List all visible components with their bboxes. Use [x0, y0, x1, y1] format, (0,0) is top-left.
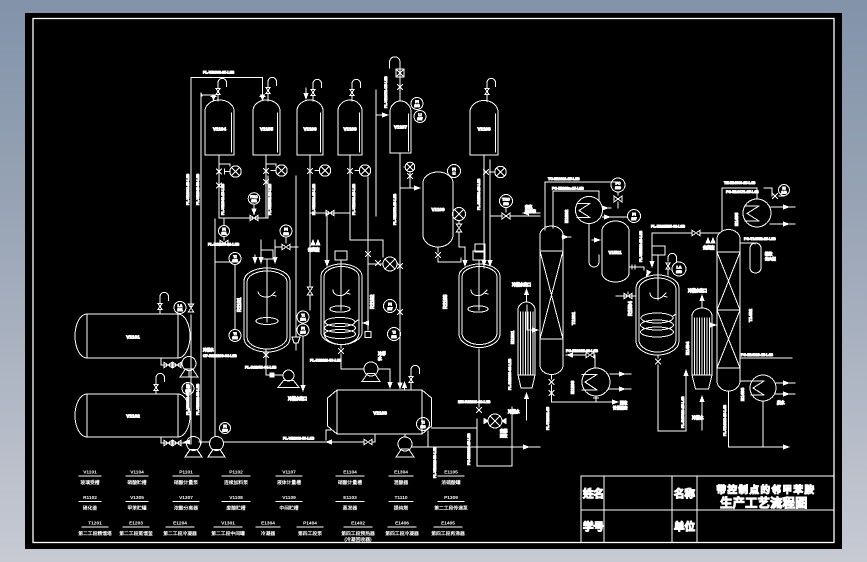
svg-text:PG-T14052-25-L1B: PG-T14052-25-L1B — [744, 237, 776, 241]
E1404 top vent — [688, 288, 707, 308]
svg-text:V1104: V1104 — [130, 470, 144, 476]
svg-text:PL-E123N25-08-L2B: PL-E123N25-08-L2B — [651, 225, 685, 229]
feed arrow into V1511 — [592, 237, 601, 242]
vent gooseneck V1105 — [268, 77, 277, 87]
svg-text:P1101: P1101 — [179, 470, 193, 476]
svg-text:PL-V11003-25-L1B: PL-V11003-25-L1B — [203, 71, 235, 75]
svg-text:第四工段预热器: 第四工段预热器 — [341, 530, 375, 537]
svg-text:第二工段中间罐: 第二工段中间罐 — [211, 530, 245, 537]
svg-text:LA: LA — [676, 266, 681, 270]
svg-text:PL-V11041-25-L1B: PL-V11041-25-L1B — [221, 183, 225, 215]
svg-text:第四工段冷凝器: 第四工段冷凝器 — [385, 530, 419, 537]
svg-text:104: 104 — [300, 318, 306, 322]
vent valve V1101 — [158, 303, 162, 309]
legend row2 — [83, 495, 468, 512]
svg-text:PL-V11023-50-L1B: PL-V11023-50-L1B — [433, 446, 437, 478]
E1403 outlets right — [776, 380, 795, 385]
valve on V1108 riser — [347, 168, 352, 173]
reactor R1103 — [443, 264, 500, 348]
loop piping — [477, 407, 512, 466]
valve on R1103 outlet — [476, 407, 481, 412]
svg-text:120: 120 — [615, 186, 621, 190]
control lines TC PC — [545, 177, 616, 201]
instrument TI 118 — [388, 328, 401, 341]
svg-text:PL-V11022-50-L1B: PL-V11022-50-L1B — [196, 383, 200, 415]
svg-text:冷凝水: 冷凝水 — [692, 415, 704, 420]
instrument LA on V1101 — [174, 302, 186, 314]
vacuum exit left — [522, 204, 540, 216]
svg-text:空系统: 空系统 — [525, 209, 536, 214]
svg-text:TE-E14000-25-L4B: TE-E14000-25-L4B — [724, 181, 756, 185]
vessel V1109 — [423, 172, 453, 247]
feed pipes into T1201 dome — [545, 182, 553, 230]
svg-text:105: 105 — [300, 331, 306, 335]
svg-text:PL-R11502-25-L1B: PL-R11502-25-L1B — [477, 178, 481, 210]
valve and FI at top right — [764, 188, 784, 199]
small arrows at pump — [484, 419, 506, 424]
pump P1105 under V1103 — [495, 166, 506, 177]
svg-text:V1104: V1104 — [213, 127, 226, 132]
svg-text:PG-E14A71-25-L4B: PG-E14A71-25-L4B — [726, 190, 759, 194]
feed arrow into V1105 from header — [260, 77, 265, 101]
flange at P1104 — [355, 170, 359, 172]
svg-text:150: 150 — [676, 270, 682, 274]
outlet piping V1105 — [266, 155, 276, 218]
svg-text:PL-V11072-25-L1B: PL-V11072-25-L1B — [393, 193, 397, 225]
svg-text:E1202: E1202 — [564, 209, 569, 223]
svg-text:103: 103 — [232, 336, 238, 340]
svg-text:PL-V11003-50-L1B: PL-V11003-50-L1B — [283, 437, 315, 441]
reactor R1504 — [628, 275, 679, 355]
svg-text:V1109: V1109 — [282, 495, 296, 501]
svg-text:PL-V11061-25-L1B: PL-V11061-25-L1B — [312, 183, 316, 215]
arrow out left of pump — [183, 439, 210, 444]
valve under V1103 — [483, 169, 488, 174]
bottom feed line into V1103h — [224, 437, 364, 445]
recycle loop under pumps — [215, 176, 268, 436]
svg-text:MN-R11323-62-L2B: MN-R11323-62-L2B — [458, 400, 491, 404]
svg-text:PL-R11106-22-L1B: PL-R11106-22-L1B — [208, 243, 240, 247]
valve on V1106 riser — [307, 168, 312, 173]
feed arrow into V1106 — [303, 88, 308, 100]
svg-text:回收: 回收 — [620, 400, 628, 405]
svg-text:111: 111 — [222, 232, 227, 236]
svg-text:回收: 回收 — [500, 433, 508, 438]
outlet piping V1107 — [397, 153, 402, 390]
instrument FI above pump — [220, 423, 231, 434]
flange at P1102 — [271, 170, 275, 172]
svg-text:名称: 名称 — [674, 487, 695, 500]
feed arrows into R1103 — [462, 250, 467, 267]
pipe from V1103h to loop — [432, 427, 478, 429]
T1201 overhead line — [562, 234, 571, 239]
vent arrow on V1103h — [402, 381, 407, 390]
control valve on line y=216 — [502, 208, 510, 220]
instrument LI at V1107 — [414, 111, 426, 123]
svg-text:提纯塔: 提纯塔 — [394, 505, 409, 512]
svg-text:V1108: V1108 — [229, 495, 243, 501]
svg-text:R1102: R1102 — [83, 495, 97, 501]
svg-text:PL-R11059-64-L1B: PL-R11059-64-L1B — [245, 366, 277, 370]
exchanger E1201 — [510, 302, 535, 388]
reactor R1101 — [237, 268, 290, 352]
arrow into R1102 side — [362, 320, 369, 325]
svg-text:冷凝水出口: 冷凝水出口 — [688, 288, 707, 293]
valve under PI 120 — [276, 244, 298, 250]
svg-text:PL-V11051-25-L1B: PL-V11051-25-L1B — [268, 183, 272, 215]
svg-text:PL-R11030-38-L2B: PL-R11030-38-L2B — [508, 358, 512, 390]
svg-text:单位: 单位 — [674, 520, 695, 533]
svg-text:冷凝器: 冷凝器 — [261, 530, 276, 537]
valve on V1105 riser lower — [263, 179, 268, 184]
instrument PI on V1102 — [182, 383, 194, 395]
instrument TI left of R1101 — [229, 253, 241, 265]
svg-text:R1504: R1504 — [628, 301, 634, 316]
svg-text:生产工艺流程图: 生产工艺流程图 — [720, 495, 808, 510]
exchanger E1203 — [570, 368, 610, 396]
svg-text:T1110: T1110 — [394, 495, 407, 501]
right side pipework of R1102 — [367, 177, 369, 330]
svg-text:PL-R11010-50-L1B: PL-R11010-50-L1B — [310, 359, 342, 363]
feed arrow into R1102 — [324, 213, 329, 267]
svg-text:LI: LI — [453, 172, 456, 176]
vent gooseneck V1102 — [156, 373, 165, 383]
instrument FI near R1101 top — [219, 218, 230, 237]
svg-text:冷凝水出口: 冷凝水出口 — [512, 282, 531, 287]
svg-text:118: 118 — [391, 335, 396, 339]
svg-text:中间贮槽: 中间贮槽 — [279, 505, 298, 512]
pump P1105c right of R1102 — [383, 257, 397, 271]
feed line into R1504 top — [649, 233, 654, 268]
pipe to pump P1105 — [489, 171, 494, 173]
instrument PI 117 — [384, 300, 397, 313]
vent stub V1103h — [410, 375, 412, 390]
valve on vacuum header — [692, 230, 700, 236]
motor R1504 — [652, 246, 665, 300]
svg-text:E1103: E1103 — [343, 495, 357, 501]
instrument TI 110 — [417, 418, 430, 431]
svg-text:E1104: E1104 — [343, 470, 357, 476]
vessel V1511 — [602, 221, 629, 282]
instrument FI — [779, 185, 790, 196]
pump P1107 — [396, 434, 414, 457]
svg-text:(冷凝回收器): (冷凝回收器) — [344, 536, 372, 543]
svg-text:硝化釜: 硝化釜 — [83, 505, 98, 512]
control valve below pump — [456, 221, 465, 256]
svg-text:第二工段精馏塔: 第二工段精馏塔 — [78, 530, 112, 537]
drain from V1103h right end — [427, 431, 429, 447]
E1403 bottom drain — [762, 401, 764, 447]
svg-text:R1102: R1102 — [370, 294, 376, 309]
riser pipe 1 — [190, 77, 192, 444]
E1404 bottom inlet — [692, 395, 705, 430]
controller PRC 102 — [248, 193, 260, 216]
line E1202 to V1511 — [602, 205, 611, 210]
R1102 bottom outlet valve — [338, 345, 343, 362]
svg-text:冷却: 冷却 — [378, 351, 386, 356]
R1103 bottom outlet — [478, 349, 480, 407]
relief valve box with X — [396, 69, 404, 77]
svg-text:E1403: E1403 — [740, 387, 745, 401]
svg-text:PL-R15023-25-L4B: PL-R15023-25-L4B — [681, 396, 685, 428]
valve on V1107 downpipe lower — [397, 309, 402, 314]
V1103h left drain — [326, 430, 331, 440]
svg-text:PI: PI — [388, 303, 391, 307]
pump under V1107 — [405, 162, 415, 172]
legend row1 — [80, 470, 460, 487]
svg-text:排放: 排放 — [765, 251, 773, 256]
svg-text:E1105: E1105 — [444, 470, 458, 476]
svg-text:去火炬: 去火炬 — [765, 256, 776, 261]
svg-text:R1103: R1103 — [443, 294, 449, 309]
svg-text:CP-R110109-64-L1B: CP-R110109-64-L1B — [203, 354, 237, 358]
pump P1110 under R1101 — [278, 370, 299, 388]
instrument PI at V1107 — [411, 98, 423, 110]
motor R1101 — [261, 250, 273, 322]
svg-text:V1301: V1301 — [221, 521, 235, 527]
drain line from pump P1102 — [295, 176, 297, 337]
svg-text:冷凝水出口: 冷凝水出口 — [288, 396, 307, 401]
vessel V1107 — [390, 101, 411, 153]
svg-text:120: 120 — [503, 202, 509, 206]
T1201 feed arrow left — [527, 305, 539, 333]
outlet piping V1104 — [219, 155, 230, 218]
svg-text:V1108: V1108 — [343, 127, 356, 132]
valve under pump V1107 — [407, 173, 412, 178]
to-vacuum symbol — [308, 240, 320, 252]
legend row3 — [78, 521, 465, 544]
vent gooseneck V1106 — [313, 79, 322, 89]
T1402 overhead to E1405 — [722, 188, 757, 231]
exchanger E1404 — [685, 308, 712, 389]
svg-text:101: 101 — [177, 308, 183, 312]
E1201 bottom inlet — [508, 392, 529, 420]
svg-text:废酸贮槽: 废酸贮槽 — [226, 505, 245, 512]
svg-text:PG-E14023-25-L4B: PG-E14023-25-L4B — [741, 353, 773, 357]
svg-text:第二工段传递泵: 第二工段传递泵 — [434, 505, 468, 512]
vessel V1101 — [75, 314, 190, 358]
E1201 top vent — [512, 282, 531, 302]
V1101 outlet to pump — [161, 358, 181, 365]
valve on riser near V1101 — [188, 304, 194, 312]
pump P1108 — [486, 414, 504, 428]
V1511 outlet right — [629, 265, 651, 278]
svg-text:V1511: V1511 — [608, 250, 621, 255]
instrument TI right of R1101 — [297, 311, 309, 323]
valve on V1105 riser — [263, 168, 268, 173]
svg-text:107: 107 — [417, 117, 423, 121]
exchanger E1202 — [564, 197, 603, 224]
svg-text:R1101: R1101 — [237, 297, 243, 312]
svg-text:PL-T14023-25-L4B: PL-T14023-25-L4B — [723, 404, 727, 436]
svg-text:混酸器: 混酸器 — [394, 479, 409, 486]
svg-text:T1402: T1402 — [748, 309, 753, 322]
valve V1102 outlet 2 — [173, 440, 181, 446]
svg-text:甲苯贮罐: 甲苯贮罐 — [127, 505, 146, 512]
svg-text:去真: 去真 — [525, 204, 533, 209]
R1504 bottom outlet loop to E1404 — [655, 355, 688, 431]
svg-text:E1304: E1304 — [394, 470, 408, 476]
svg-text:去真空: 去真空 — [703, 245, 715, 250]
svg-text:V1106: V1106 — [303, 127, 316, 132]
valve and riser into V1103h — [364, 434, 375, 445]
valve on V1106 downpipe — [307, 287, 313, 295]
svg-text:第二工段蒸馏釜: 第二工段蒸馏釜 — [119, 530, 153, 537]
title block grid — [581, 476, 834, 542]
E1405 outlets right — [771, 204, 795, 209]
valve on V1104 riser — [216, 183, 221, 188]
vessel V1104 — [205, 100, 234, 155]
svg-text:E1204: E1204 — [173, 521, 187, 527]
feed arrow into V1107 left — [376, 90, 389, 216]
svg-text:102: 102 — [185, 389, 191, 393]
svg-text:浓硫酸罐: 浓硫酸罐 — [441, 479, 460, 486]
funnel drain right of R1101 — [292, 337, 300, 350]
svg-text:109: 109 — [222, 429, 228, 433]
svg-text:120: 120 — [283, 232, 289, 236]
exchanger E1405 — [734, 199, 771, 227]
line into E1405 top — [756, 188, 758, 199]
agitator R1102 — [330, 290, 350, 312]
svg-text:V1105: V1105 — [260, 127, 273, 132]
svg-text:TRC: TRC — [502, 198, 510, 202]
pump P1103 — [319, 165, 330, 176]
svg-text:117: 117 — [387, 307, 392, 311]
pump at V1109 right — [453, 208, 466, 221]
vent stub V1102 — [155, 383, 157, 394]
reactor R1102 — [321, 264, 376, 345]
svg-text:V1107: V1107 — [282, 470, 296, 476]
pump P1101 — [230, 166, 241, 177]
vessel V1102 — [75, 394, 190, 437]
pipe to pump P1105c — [368, 263, 383, 265]
feed drop into V1104 — [201, 95, 216, 102]
valve under V1107 — [397, 263, 402, 268]
svg-text:V1103: V1103 — [477, 127, 490, 132]
column T1402 — [717, 230, 753, 391]
jacket condensate drain — [288, 336, 307, 401]
svg-text:FC: FC — [615, 182, 620, 186]
E1202 drain loop — [589, 224, 599, 268]
discharge line right — [412, 444, 540, 449]
vent gooseneck V1103 — [487, 78, 496, 88]
svg-text:E1402: E1402 — [351, 521, 365, 527]
svg-text:V1307: V1307 — [179, 495, 193, 501]
svg-text:P1309: P1309 — [444, 495, 458, 501]
valve on stack — [397, 84, 402, 89]
instrument FC — [611, 178, 625, 192]
vessel V1108 — [338, 100, 362, 155]
svg-text:第二工段冷凝器: 第二工段冷凝器 — [163, 530, 197, 537]
svg-text:V1305: V1305 — [130, 495, 144, 501]
vessel V1105 — [253, 100, 280, 155]
svg-text:TI: TI — [421, 421, 424, 425]
vent gooseneck V1108 — [352, 79, 361, 89]
valve V1101 outlet 2 — [173, 362, 181, 368]
svg-text:PL-V11071-C5-L1B: PL-V11071-C5-L1B — [384, 76, 388, 108]
svg-text:液体计量槽: 液体计量槽 — [277, 479, 301, 486]
svg-text:带控制点的邻甲苯胺: 带控制点的邻甲苯胺 — [716, 484, 815, 496]
relief stack above V1107: gooseneck to flare — [390, 57, 400, 101]
svg-text:连续加料泵: 连续加料泵 — [224, 479, 248, 486]
svg-text:去蒸: 去蒸 — [500, 428, 508, 433]
svg-text:废水: 废水 — [777, 400, 785, 405]
svg-text:T1201: T1201 — [571, 312, 576, 325]
svg-text:玻璃受槽: 玻璃受槽 — [80, 479, 99, 486]
agitator R1101 — [256, 292, 278, 325]
valve on R1102 side pipe — [365, 251, 370, 256]
pump P1106 under R1102 — [362, 362, 380, 382]
svg-text:E1201: E1201 — [510, 330, 515, 344]
exchanger E1403 — [740, 375, 776, 401]
instrument PI/LI at V1109 top — [448, 165, 461, 178]
outlet piping V1106 — [309, 155, 311, 260]
svg-text:PI: PI — [284, 228, 287, 232]
feed header to vacuum — [651, 225, 720, 236]
agitator R1103 — [468, 290, 488, 312]
svg-text:硝酸计量槽: 硝酸计量槽 — [338, 479, 362, 486]
valve on loop — [326, 210, 334, 216]
svg-text:E1406: E1406 — [395, 521, 409, 527]
thermosiphon pot — [740, 237, 776, 273]
outlet piping V1103 top — [484, 155, 490, 268]
svg-text:冷凝水: 冷凝水 — [203, 347, 214, 352]
pipe to V1109 — [404, 167, 410, 188]
instrument PI 127 — [628, 210, 641, 223]
motor R1102 — [335, 251, 347, 310]
cooling coil R1102 — [325, 318, 359, 339]
vessel V1103h — [328, 390, 432, 434]
svg-text:V1102: V1102 — [126, 414, 140, 420]
svg-text:P1102: P1102 — [229, 470, 243, 476]
svg-text:140: 140 — [781, 191, 787, 195]
T1201 bottom outlet — [549, 375, 619, 405]
vent valve V1103h — [409, 376, 413, 382]
pump P1103b — [185, 437, 202, 458]
flange at P1103 — [315, 170, 319, 172]
valve V1102 outlet 1 — [164, 440, 172, 446]
vent gooseneck V1103h — [411, 365, 420, 375]
E1404 vapor to column arrow — [710, 322, 717, 327]
feed arrow into V1109 left — [400, 185, 421, 190]
svg-text:E1304: E1304 — [261, 521, 275, 527]
svg-text:学号: 学号 — [583, 520, 604, 533]
instrument line R1101 — [234, 265, 236, 330]
svg-text:水: 水 — [377, 356, 382, 361]
E1203 bottom outlet — [594, 396, 599, 402]
line to vacuum text — [490, 215, 540, 217]
svg-text:姓名: 姓名 — [583, 487, 604, 500]
agitator R1504 — [650, 293, 667, 299]
pipe V1106 to R1102 — [309, 260, 311, 310]
svg-text:E1405: E1405 — [441, 521, 455, 527]
svg-text:110: 110 — [420, 425, 425, 429]
svg-text:PI: PI — [632, 213, 635, 217]
column T1201 — [540, 226, 576, 375]
pump P1104 — [359, 165, 370, 176]
svg-text:计量槽去: 计量槽去 — [613, 405, 628, 410]
pump P1104b — [208, 437, 225, 458]
svg-text:T1201: T1201 — [88, 521, 102, 527]
pump P1101b — [180, 357, 198, 378]
E1403 feed from column — [740, 380, 750, 382]
svg-text:V1101: V1101 — [83, 470, 97, 476]
motor R1103 — [473, 251, 485, 310]
valve on recycle loop — [250, 215, 258, 221]
instrument PI 120 — [280, 225, 292, 243]
V1102 outlet to pumps — [161, 437, 186, 443]
box fitting above R1103 — [475, 244, 485, 252]
